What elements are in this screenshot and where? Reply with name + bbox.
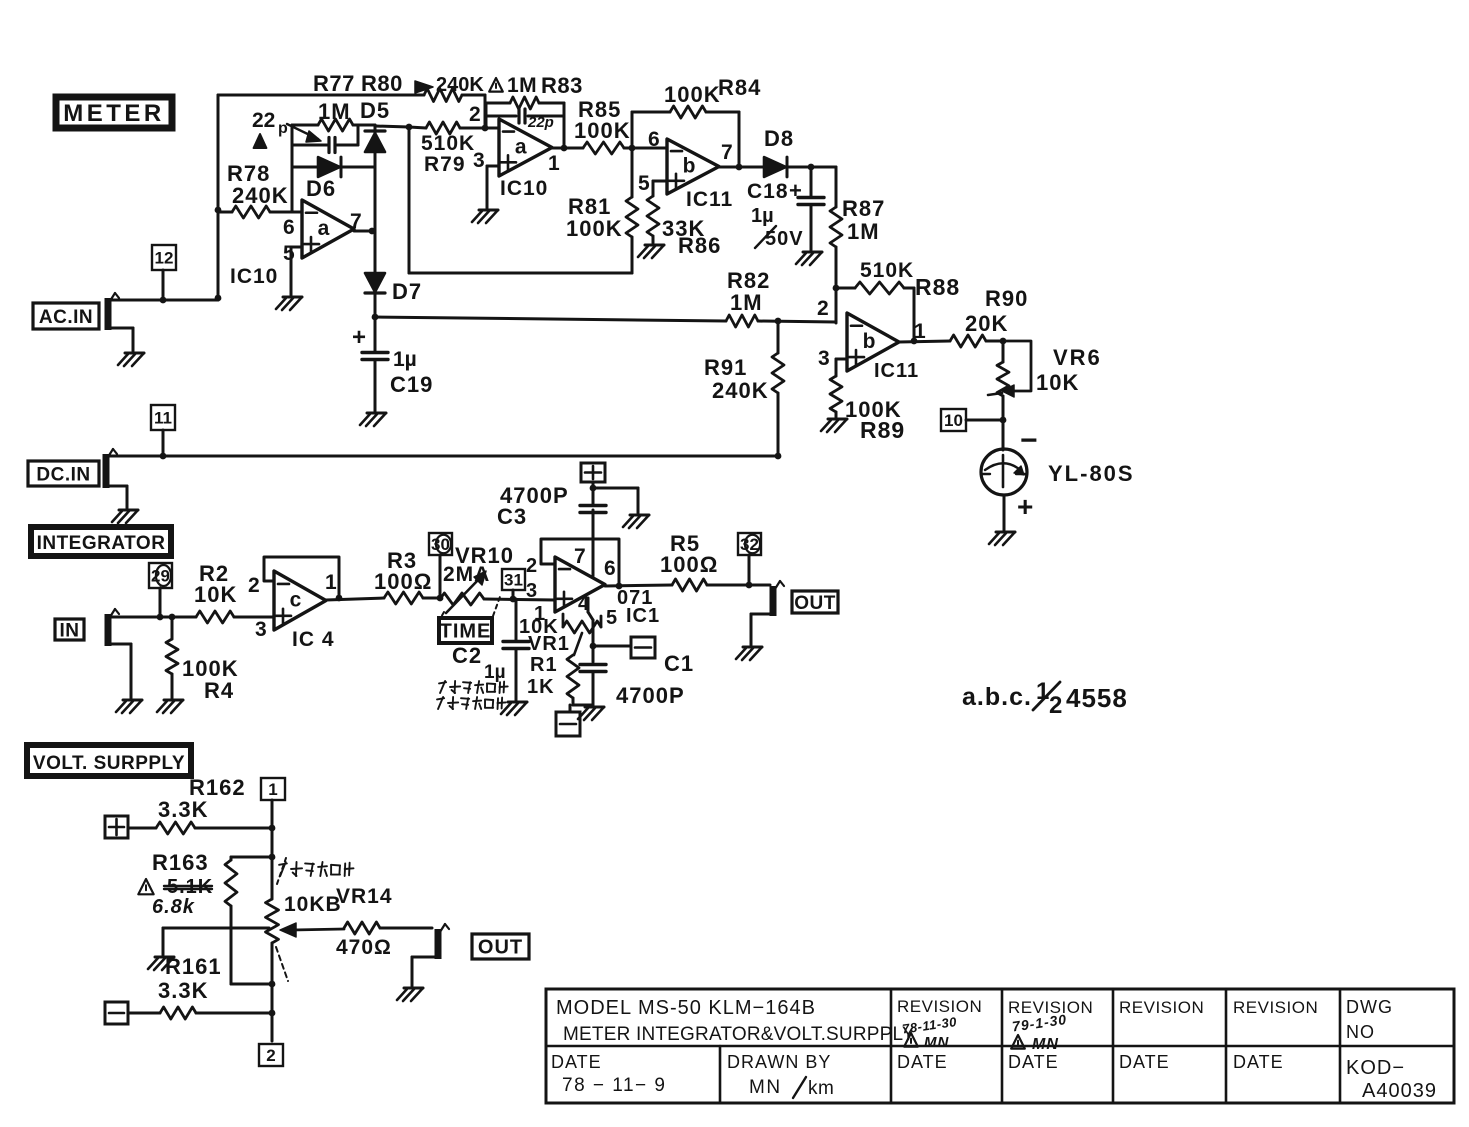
svg-text:12: 12: [155, 249, 174, 268]
svg-text:MN: MN: [1032, 1036, 1059, 1053]
svg-text:R89: R89: [860, 417, 905, 443]
svg-text:R80: R80: [361, 71, 403, 96]
svg-text:a: a: [318, 217, 330, 240]
svg-text:R83: R83: [541, 73, 583, 98]
svg-text:YL-80S: YL-80S: [1048, 461, 1135, 486]
svg-text:2: 2: [248, 574, 260, 597]
svg-text:78 − 11− 9: 78 − 11− 9: [562, 1075, 666, 1096]
svg-text:c: c: [290, 589, 302, 612]
svg-text:240K: 240K: [436, 74, 484, 96]
svg-text:MN: MN: [924, 1034, 949, 1051]
svg-text:VR1: VR1: [528, 633, 570, 655]
svg-text:IC10: IC10: [230, 265, 278, 288]
svg-text:MODEL MS-50 KLM−164B: MODEL MS-50 KLM−164B: [556, 997, 816, 1019]
svg-text:2: 2: [817, 297, 829, 320]
svg-text:+: +: [789, 178, 802, 203]
svg-text:IC11: IC11: [686, 188, 733, 211]
svg-text:DRAWN BY: DRAWN BY: [727, 1052, 831, 1072]
svg-text:3: 3: [255, 618, 267, 641]
svg-text:MN: MN: [749, 1077, 782, 1098]
svg-text:TIME: TIME: [440, 621, 492, 643]
svg-text:DC.IN: DC.IN: [36, 464, 90, 485]
svg-text:R161: R161: [165, 954, 222, 979]
svg-text:5: 5: [283, 242, 295, 265]
svg-text:1µ: 1µ: [484, 662, 506, 683]
svg-text:p: p: [278, 120, 288, 137]
svg-text:1: 1: [325, 571, 337, 594]
svg-text:METER: METER: [63, 100, 165, 127]
svg-text:b: b: [863, 330, 876, 353]
svg-text:29: 29: [151, 567, 170, 586]
svg-text:100K: 100K: [566, 216, 623, 241]
svg-text:DATE: DATE: [897, 1052, 948, 1072]
svg-text:2: 2: [469, 103, 481, 126]
svg-text:IC 4: IC 4: [292, 628, 335, 651]
svg-text:R91: R91: [704, 355, 747, 380]
svg-text:10K: 10K: [194, 582, 237, 607]
svg-text:10KB: 10KB: [284, 893, 342, 916]
svg-text:R90: R90: [985, 286, 1028, 311]
svg-text:D8: D8: [764, 126, 794, 151]
svg-text:22p: 22p: [527, 114, 554, 131]
svg-text:R4: R4: [204, 678, 234, 703]
svg-text:4558: 4558: [1066, 683, 1128, 713]
svg-text:R79: R79: [424, 153, 466, 176]
svg-text:1K: 1K: [527, 676, 555, 698]
svg-text:10: 10: [944, 411, 963, 430]
svg-text:1µ: 1µ: [751, 205, 774, 227]
svg-text:km: km: [808, 1078, 834, 1099]
svg-text:METER INTEGRATOR&VOLT.SURPPLY: METER INTEGRATOR&VOLT.SURPPLY: [563, 1024, 915, 1045]
svg-text:C1: C1: [664, 651, 694, 676]
svg-text:a.b.c.: a.b.c.: [962, 683, 1032, 711]
svg-text:INTEGRATOR: INTEGRATOR: [37, 533, 166, 554]
svg-text:NO: NO: [1346, 1022, 1375, 1042]
svg-text:OUT: OUT: [478, 937, 523, 959]
svg-text:240K: 240K: [712, 378, 769, 403]
svg-text:100K: 100K: [664, 82, 721, 107]
svg-text:R1: R1: [530, 654, 558, 676]
svg-text:510K: 510K: [421, 132, 475, 155]
svg-text:VOLT. SURPPLY: VOLT. SURPPLY: [33, 753, 185, 774]
svg-text:IN: IN: [60, 620, 80, 641]
svg-text:3: 3: [473, 149, 485, 172]
svg-text:KOD−: KOD−: [1346, 1057, 1405, 1079]
svg-text:1M: 1M: [847, 219, 880, 244]
svg-text:240K: 240K: [232, 183, 289, 208]
svg-text:100K: 100K: [574, 118, 631, 143]
svg-text:6: 6: [283, 216, 295, 239]
svg-text:1M: 1M: [318, 99, 351, 124]
svg-text:−: −: [1020, 424, 1038, 457]
svg-text:+: +: [1017, 491, 1033, 522]
svg-text:5: 5: [606, 607, 617, 629]
svg-text:DATE: DATE: [551, 1052, 602, 1072]
svg-text:A40039: A40039: [1362, 1080, 1437, 1102]
svg-text:100Ω: 100Ω: [660, 552, 718, 577]
svg-text:1: 1: [268, 780, 277, 799]
svg-text:DATE: DATE: [1119, 1052, 1170, 1072]
svg-text:REVISION: REVISION: [897, 997, 982, 1016]
svg-text:C3: C3: [497, 504, 527, 529]
svg-text:20K: 20K: [965, 311, 1008, 336]
svg-text:3.3K: 3.3K: [158, 797, 208, 822]
svg-text:5: 5: [638, 172, 650, 195]
svg-text:6.8k: 6.8k: [152, 896, 195, 918]
svg-text:510K: 510K: [860, 259, 914, 282]
svg-text:R84: R84: [718, 75, 761, 100]
svg-text:22: 22: [252, 109, 275, 132]
svg-text:C2: C2: [452, 643, 482, 668]
svg-text:11: 11: [154, 409, 172, 428]
svg-text:+: +: [352, 324, 366, 351]
svg-text:C18: C18: [747, 180, 789, 203]
svg-text:R77: R77: [313, 71, 355, 96]
svg-text:3: 3: [818, 347, 830, 370]
svg-text:D7: D7: [392, 279, 422, 304]
svg-text:4700P: 4700P: [616, 683, 685, 708]
svg-text:IC11: IC11: [874, 360, 919, 382]
svg-text:C19: C19: [390, 372, 433, 397]
svg-text:D6: D6: [306, 176, 336, 201]
svg-text:7: 7: [574, 545, 586, 568]
svg-text:REVISION: REVISION: [1233, 998, 1318, 1017]
svg-text:R163: R163: [152, 850, 209, 875]
svg-text:2: 2: [1049, 692, 1062, 719]
svg-text:IC10: IC10: [500, 177, 548, 200]
svg-text:100Ω: 100Ω: [374, 569, 432, 594]
svg-text:1M: 1M: [730, 290, 763, 315]
svg-text:470Ω: 470Ω: [336, 936, 392, 959]
svg-text:DATE: DATE: [1008, 1052, 1059, 1072]
svg-text:3: 3: [526, 580, 537, 602]
svg-text:IC1: IC1: [626, 605, 660, 627]
svg-text:R86: R86: [678, 233, 721, 258]
svg-text:OUT: OUT: [794, 593, 836, 614]
svg-text:D5: D5: [360, 98, 390, 123]
svg-text:AC.IN: AC.IN: [39, 307, 93, 328]
svg-text:2: 2: [266, 1046, 275, 1065]
svg-text:31: 31: [504, 571, 523, 590]
svg-text:DWG: DWG: [1346, 997, 1393, 1017]
svg-text:6: 6: [648, 128, 660, 151]
svg-text:R88: R88: [915, 274, 960, 300]
svg-text:2MA: 2MA: [443, 563, 490, 586]
svg-text:REVISION: REVISION: [1119, 998, 1204, 1017]
svg-text:1µ: 1µ: [393, 348, 417, 371]
svg-text:a: a: [515, 136, 527, 159]
svg-text:2: 2: [526, 555, 537, 577]
svg-text:3.3K: 3.3K: [158, 978, 208, 1003]
svg-text:6: 6: [604, 557, 616, 580]
svg-text:1M: 1M: [507, 74, 537, 97]
svg-text:DATE: DATE: [1233, 1052, 1284, 1072]
svg-text:7: 7: [721, 141, 733, 164]
svg-text:1: 1: [548, 152, 560, 175]
svg-text:VR14: VR14: [336, 885, 393, 908]
svg-text:10K: 10K: [1036, 370, 1079, 395]
svg-text:b: b: [683, 155, 696, 178]
svg-text:R87: R87: [842, 196, 885, 221]
svg-text:VR6: VR6: [1053, 345, 1102, 370]
